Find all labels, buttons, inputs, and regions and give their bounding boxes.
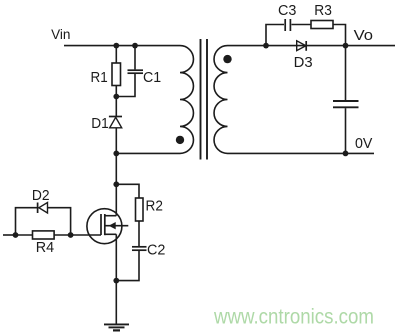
svg-text:www.cntronics.com: www.cntronics.com <box>213 306 374 329</box>
wire D1 to primary bottom <box>115 128 117 154</box>
svg-text:D2: D2 <box>32 187 50 204</box>
ground <box>104 324 129 330</box>
diode D3 <box>297 41 307 51</box>
svg-text:R4: R4 <box>36 239 54 256</box>
junction R1 top <box>113 43 119 49</box>
wire snubber branch <box>266 25 284 46</box>
svg-text:Vin: Vin <box>51 27 70 42</box>
wire C2 bottom lead <box>116 251 139 281</box>
wire R2 top lead <box>116 184 139 198</box>
secondary phase dot <box>223 55 231 63</box>
wire output cap bottom lead <box>345 108 347 153</box>
wire Vin top rail <box>64 45 180 47</box>
junction R2 branch <box>113 181 119 187</box>
wire D2 branch right <box>48 208 71 235</box>
svg-text:R3: R3 <box>314 2 332 19</box>
svg-text:R1: R1 <box>91 69 108 86</box>
resistor R3 <box>311 21 333 29</box>
diode D2 <box>38 203 48 214</box>
wire D2 branch left <box>16 208 38 235</box>
junction gate left <box>13 232 19 238</box>
wire gate stub left <box>3 234 16 236</box>
capacitor Cout <box>333 101 359 107</box>
wire source line <box>115 234 117 324</box>
wire R2 to C2 <box>138 221 140 246</box>
wire drain line <box>115 153 117 215</box>
diode D1 <box>109 117 122 128</box>
capacitor C2 <box>132 247 147 250</box>
wire R1 bottom lead <box>115 86 117 97</box>
junction gate right <box>68 232 74 238</box>
junction source <box>113 278 119 284</box>
wire secondary bottom rail <box>228 152 375 154</box>
capacitor C3 <box>285 19 290 31</box>
transistor Q1 MOSFET <box>87 209 128 244</box>
junction output node <box>343 43 349 49</box>
svg-text:R2: R2 <box>146 198 163 215</box>
resistor R1 <box>112 63 121 86</box>
transformer primary winding <box>180 46 193 154</box>
wire R4 left lead <box>16 234 33 236</box>
resistor R2 <box>136 198 144 221</box>
transformer secondary winding <box>214 46 227 154</box>
wire junction to D1 <box>115 97 117 118</box>
junction C1 top <box>132 43 138 49</box>
wire gate lead <box>71 234 101 236</box>
svg-text:D3: D3 <box>294 54 313 71</box>
junction R1-C1 <box>113 94 119 100</box>
svg-text:Vo: Vo <box>354 27 373 44</box>
transformer core <box>201 39 208 160</box>
wire R3 to rail <box>333 25 346 46</box>
junction snubber left <box>263 43 269 49</box>
wire secondary top rail <box>228 45 396 47</box>
wire R4 right lead <box>54 234 71 236</box>
junction primary bottom <box>113 151 119 157</box>
wire R1 top lead <box>115 46 117 63</box>
wire C1 bottom lead <box>116 74 135 97</box>
primary phase dot <box>176 136 184 144</box>
wire C3 to R3 <box>292 24 312 26</box>
wire output cap top lead <box>345 46 347 101</box>
capacitor C1 <box>128 70 144 73</box>
svg-text:C3: C3 <box>278 2 296 19</box>
svg-text:C2: C2 <box>147 242 165 259</box>
wire primary bottom <box>116 152 180 154</box>
wire C1 top lead <box>134 46 136 70</box>
svg-text:D1: D1 <box>91 115 109 132</box>
junction 0V <box>343 151 349 157</box>
svg-text:C1: C1 <box>143 69 161 86</box>
resistor R4 <box>33 231 55 239</box>
svg-text:0V: 0V <box>355 135 372 152</box>
